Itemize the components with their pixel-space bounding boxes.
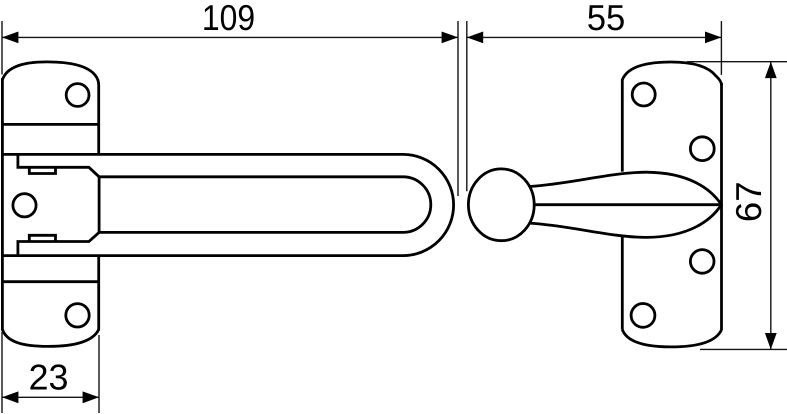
left plate left edge xyxy=(1,78,4,330)
knob paddle outline xyxy=(530,172,722,237)
dim 55 extension line left xyxy=(466,21,468,191)
dim 67 line xyxy=(770,62,772,350)
right plate hole lower-right xyxy=(690,250,714,274)
hinge bracket top tab xyxy=(29,167,55,173)
bar inner left end xyxy=(98,177,101,233)
dim 55 arrow right xyxy=(705,32,721,44)
hinge bracket bottom tab xyxy=(29,235,55,241)
left plate right edge lower xyxy=(97,256,100,331)
dim 109 arrow left xyxy=(2,32,18,44)
right plate left edge upper xyxy=(621,79,624,172)
bar outer right arc xyxy=(403,154,454,255)
hinge bracket top xyxy=(18,154,99,176)
hinge bracket bottom xyxy=(18,232,99,255)
bar inner top line xyxy=(99,175,403,178)
right plate right edge xyxy=(720,83,723,330)
right plate top dome xyxy=(622,62,721,85)
right plate hole upper-right xyxy=(690,137,714,161)
dim 67 extension line top xyxy=(687,61,787,63)
right plate bottom dome xyxy=(622,330,721,347)
dim 23 extension line left xyxy=(1,332,3,413)
left plate bottom dome xyxy=(2,330,98,347)
dim 67 arrow top xyxy=(765,62,777,78)
hinge leaf band bottom line / bar outer bottom xyxy=(2,254,403,257)
dim text 67 (rotated) xyxy=(736,183,761,220)
bar inner right arc xyxy=(403,177,431,233)
dim 67 arrow bottom xyxy=(765,333,777,349)
dim 23 line xyxy=(2,396,99,398)
left plate top hole xyxy=(66,84,89,107)
dim 55 arrow left xyxy=(467,32,483,44)
dim 55 extension line right xyxy=(720,21,722,75)
left plate bottom hole xyxy=(66,304,89,327)
right plate hole bottom-left xyxy=(631,304,655,328)
dim text 23 xyxy=(30,364,67,389)
dim text 109 xyxy=(204,5,253,30)
dim 23 extension line right xyxy=(98,335,100,413)
dim 109 extension line right xyxy=(457,21,459,196)
dim 109 arrow right xyxy=(442,32,458,44)
hinge pivot hole xyxy=(13,194,36,217)
knob ball xyxy=(468,169,534,241)
dim 55 line xyxy=(467,36,722,38)
bar inner bottom line xyxy=(99,231,403,234)
dim 23 arrow right xyxy=(83,391,99,403)
left plate lower section line xyxy=(2,280,98,283)
hinge leaf band top line / bar outer top xyxy=(2,153,403,156)
dim text 55 xyxy=(588,5,624,30)
dim 109 extension line left xyxy=(1,21,3,75)
right plate hole top-left xyxy=(632,83,655,106)
dim 23 arrow left xyxy=(2,391,18,403)
left plate top dome xyxy=(2,62,98,154)
left plate upper section line xyxy=(2,123,98,126)
dim 109 line xyxy=(2,36,458,38)
dim 67 extension line bottom xyxy=(700,348,787,350)
knob crease line xyxy=(534,203,721,206)
right plate left edge lower xyxy=(621,237,624,330)
